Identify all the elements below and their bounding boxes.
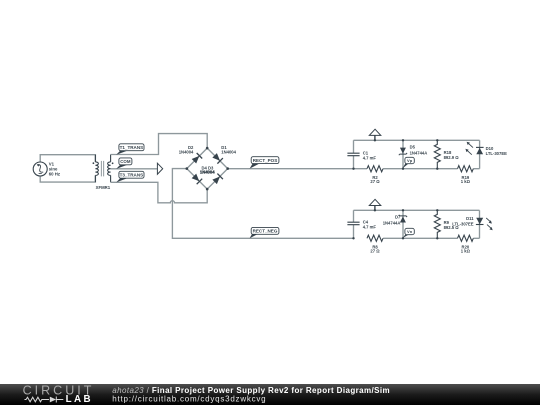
wire D10 column [479,140,481,168]
svg-text:LTL-307EE: LTL-307EE [486,151,508,156]
node R18 bottom [436,168,438,170]
flag T1_TRANS [116,144,144,155]
diode D2 [191,153,202,164]
wire D7 column [402,210,404,238]
svg-text:1 kΩ: 1 kΩ [461,249,471,254]
wire D5 column [402,140,404,168]
resistor R20 [458,235,474,253]
node bridge top [206,147,209,150]
wire RECT_POS net [228,168,367,170]
svg-text:T3_TRANS: T3_TRANS [120,173,144,178]
node C1 bottom [352,168,354,170]
capacitor C1 [347,150,376,160]
svg-text:27 Ω: 27 Ω [370,248,380,253]
wire negative rail bottom segments [383,237,479,239]
svg-text:60 Hz: 60 Hz [49,172,60,177]
wire D11 column [479,210,481,238]
capacitor C4 [347,219,376,229]
svg-text:COM: COM [120,159,131,164]
svg-text:4.7 mF: 4.7 mF [363,155,377,160]
port arrow COM (up, positive rail) [369,129,381,140]
svg-text:T1_TRANS: T1_TRANS [120,145,144,150]
wire positive rail bottom segments [383,168,480,170]
diode D3 [212,174,223,185]
node R9 bottom [436,237,438,239]
svg-text:D5: D5 [410,144,416,149]
zener diode D5 [399,144,428,155]
svg-text:Vp: Vp [407,158,413,163]
wire negative rail top [354,209,480,211]
transformer XFMR1 [93,155,114,190]
node D5 top [402,139,404,141]
wire bridge diamond [187,148,228,189]
resistor R2 [367,166,383,184]
node C4 bottom [352,237,354,239]
wire T3_TRANS net (with hop over RECT_NEG wire) [111,182,208,203]
svg-text:XFMR1: XFMR1 [96,185,111,190]
svg-text:LAB: LAB [66,394,93,405]
svg-text:27 Ω: 27 Ω [370,179,380,184]
node D7 top [402,209,404,211]
voltage source V1 [33,162,60,177]
resistor R18 [434,140,459,168]
wire C4 column [353,210,355,238]
node bridge right [226,167,229,170]
port arrow COM (right-pointing) [157,163,162,174]
resistor R8 [367,235,383,253]
LED D10 [465,142,507,156]
flag RECT_NEG [250,227,279,238]
resistor R19 [458,166,474,184]
node D7 bottom [402,237,404,239]
svg-text:Vn: Vn [407,229,413,234]
flag RECT_POS [250,157,279,169]
diode D1 [212,153,223,164]
flag T3_TRANS [116,171,144,182]
svg-text:http://circuitlab.com/cdyqs3dz: http://circuitlab.com/cdyqs3dzwkcvg [112,394,266,403]
wire RECT_NEG net [172,169,353,239]
node R18 top [436,139,438,141]
resistor R9 [434,210,459,238]
svg-text:LTL-307EE: LTL-307EE [452,222,474,227]
svg-text:1N4004: 1N4004 [221,149,236,154]
node bridge left [186,167,189,170]
svg-text:1N4004: 1N4004 [179,149,194,154]
svg-text:R9: R9 [444,220,450,225]
svg-text:892.9 Ω: 892.9 Ω [444,155,460,160]
wire T1_TRANS net [111,134,208,155]
LED D11 [452,216,492,231]
wire V1 primary loop [40,155,95,182]
svg-text:1N4004: 1N4004 [200,170,215,175]
node flag/rail junction [374,139,376,141]
node D5 bottom [402,168,404,170]
svg-text:D11: D11 [466,216,474,221]
flag COM [116,158,132,169]
wire COM net (center tap) [111,168,158,170]
svg-text:R18: R18 [444,150,452,155]
flag Vp [402,157,414,168]
port arrow COM (up, negative rail) [369,199,381,210]
svg-text:RECT_NEG: RECT_NEG [253,229,278,234]
node flag/rail junction 2 [374,209,376,211]
flag Vn [402,228,414,238]
node bridge bottom [206,188,209,191]
svg-text:1 kΩ: 1 kΩ [461,179,471,184]
svg-text:1N4744A: 1N4744A [383,220,401,225]
diode D4 [191,173,202,184]
svg-text:D7: D7 [395,215,401,220]
svg-text:ahota23 / Final Project Power: ahota23 / Final Project Power Supply Rev… [112,385,390,394]
svg-text:RECT_POS: RECT_POS [253,158,278,163]
wire positive rail top [354,139,480,141]
FOOTER [0,384,540,405]
svg-text:1N4744A: 1N4744A [410,150,428,155]
wire C1 column [353,140,355,168]
zener diode D7 [383,215,407,226]
node R9 top [436,209,438,211]
svg-text:4.7 mF: 4.7 mF [363,224,377,229]
